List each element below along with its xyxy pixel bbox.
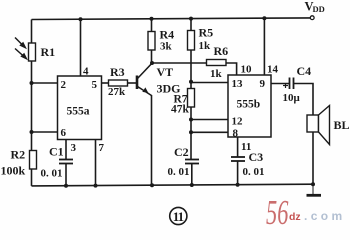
node emitter ground: [150, 183, 154, 187]
wire R5 top lead: [190, 19, 192, 31]
wire 555b pin9 to C4: [271, 83, 289, 85]
capacitor C2: [185, 160, 199, 164]
wire 555b pin14 stub: [263, 18, 265, 75]
wire 555a pin6: [32, 131, 58, 133]
wire R6 to 555b pin10: [225, 63, 237, 75]
node junction pin4 on rail: [79, 17, 83, 21]
node junction R4 on rail: [150, 17, 154, 21]
wire C4 to speaker: [294, 84, 313, 116]
plus mark C4: [283, 83, 288, 88]
wire R3 to VT base: [128, 82, 137, 84]
node junction pin12: [189, 118, 193, 122]
capacitor C3: [231, 157, 245, 161]
light arrow 1: [15, 38, 25, 48]
wire collector node to R6: [152, 62, 207, 64]
wire R2 bottom lead: [31, 169, 33, 186]
wire ground rail: [32, 184, 314, 186]
node C1 ground: [64, 184, 68, 188]
wire 555a pin4 stub: [80, 19, 82, 76]
wire C1 bottom lead: [65, 164, 67, 186]
wire 555a pin5 to R3: [102, 82, 109, 84]
wire node to 555b pin13: [191, 82, 228, 84]
transistor Q1 VT: [137, 63, 152, 95]
resistor R4: [148, 32, 155, 51]
node A junction R1-R2-pin2: [30, 81, 34, 85]
node C2 ground: [190, 183, 194, 187]
terminal VDD: [310, 16, 314, 20]
wire R1 top lead: [31, 20, 33, 44]
capacitor C1: [59, 160, 73, 164]
resistor R5: [188, 31, 195, 51]
wire 555b pin8: [191, 131, 228, 133]
resistor R2: [30, 151, 37, 170]
wire VDD top rail: [32, 18, 313, 20]
op-amp U2 555b box: [228, 75, 271, 137]
node junction pin6: [30, 130, 34, 134]
light arrow 2: [15, 49, 26, 59]
circled figure number 11: [170, 207, 187, 224]
node speaker ground: [311, 182, 315, 186]
wire 555a pin2: [32, 82, 58, 84]
node junction R5 on rail: [189, 17, 193, 21]
wire R4 bottom lead to collector node: [151, 50, 153, 63]
photoresistor R1: [29, 43, 36, 61]
wire C2 bottom lead: [191, 164, 193, 186]
wire 555a pin7 to ground: [95, 140, 97, 186]
resistor R6: [207, 60, 227, 66]
wire left vertical R1-R2: [31, 61, 33, 151]
capacitor C4 polarized: [290, 78, 294, 90]
node junction pin13: [189, 80, 193, 84]
node junction pin8: [189, 130, 193, 134]
wire C3 bottom lead: [237, 161, 239, 185]
wire R5 bottom lead to node: [190, 50, 192, 89]
wire 555a pin3 to C1: [65, 140, 67, 160]
wire 555b pin12: [191, 119, 228, 121]
node C3 ground: [236, 183, 240, 187]
wire speaker to ground: [312, 132, 314, 184]
speaker BL: [307, 106, 330, 145]
resistor R7: [188, 89, 195, 108]
wire R7 bottom lead: [190, 107, 192, 160]
node collector junction: [150, 61, 154, 65]
wire R4 top lead: [151, 19, 153, 32]
resistor R3: [109, 80, 128, 86]
wire VT emitter down to ground: [151, 95, 153, 185]
wire 555b pin11 to C3: [237, 137, 239, 157]
op-amp U1 555a box: [58, 76, 102, 140]
node junction pin14 on rail: [262, 16, 266, 20]
ground: [307, 184, 322, 195]
node pin7 ground: [94, 184, 98, 188]
